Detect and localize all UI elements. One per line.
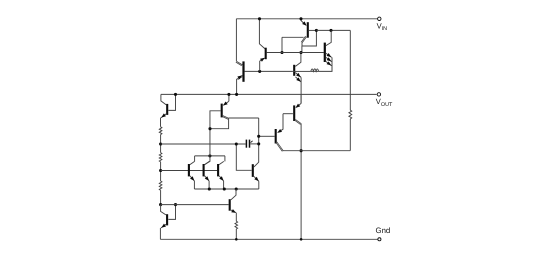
wire feedback rail (283, 150, 351, 152)
transistor Q6 (NPN) (253, 162, 259, 189)
node Q9 base (257, 135, 260, 138)
transistor Q10 (PNP) (283, 94, 301, 124)
node base-collector junction of Q2 (174, 203, 177, 206)
wire compensation vertical (258, 118, 260, 162)
wire bias line (245, 70, 293, 72)
transistor Q8 (diode-connected PNP) (205, 94, 259, 164)
transistor Q2 (diode-connected NPN) (160, 205, 175, 240)
node Q14 base (315, 29, 318, 32)
wire V_IN rail (236, 18, 377, 20)
transistor Q9 (PNP) (259, 114, 284, 152)
svg-text:Gnd: Gnd (376, 226, 391, 235)
node Q12 collector at rail (258, 17, 261, 20)
transistor Q13 (PNP pass) (236, 19, 244, 95)
node Q14 emitter at rail (299, 17, 302, 20)
wire ground rail (160, 238, 377, 240)
wire (160, 190, 162, 204)
resistor R4 (235, 221, 238, 229)
node Q15 collector tie (329, 29, 332, 32)
terminal V_OUT (377, 93, 380, 96)
node bias node A (280, 51, 283, 54)
node T2 emitter (208, 187, 211, 190)
label Gnd (376, 226, 391, 235)
transistor Q1 (diode-connected NPN) (161, 94, 176, 126)
transistor Q14 (diode-connected PNP) (282, 19, 316, 53)
label V_IN (377, 21, 388, 32)
resistor R6 (349, 110, 352, 119)
transistor Q15 (triple-emitter NPN) (325, 30, 332, 71)
node T3 emitter (223, 187, 226, 190)
wire (160, 135, 162, 153)
wire (160, 162, 162, 181)
transistor Q7 (NPN) (230, 189, 237, 221)
wire base bus (316, 29, 350, 31)
wire cap left (161, 143, 246, 145)
node bias junction (258, 70, 261, 73)
resistor R5 (310, 69, 318, 72)
wire collector tie bar (195, 156, 225, 162)
wire emitter bus (194, 188, 258, 190)
wire V_OUT rail (161, 93, 377, 95)
resistor R2 (159, 153, 162, 162)
transistor Q12 (PNP) (259, 19, 282, 72)
node compensation tap (159, 142, 162, 145)
wire base line y53 (267, 52, 324, 54)
terminal V_IN (378, 17, 381, 20)
node cap branch (235, 142, 238, 145)
wire (319, 66, 332, 71)
transistor Q11 (double-emitter NPN) (293, 53, 301, 104)
wire (235, 229, 237, 239)
node bottom tap (159, 203, 162, 206)
capacitor C1 (246, 140, 258, 148)
wire (296, 70, 311, 72)
node Q8 base-collector (208, 127, 211, 130)
node collector tie (208, 154, 211, 157)
wire main vertical (300, 124, 302, 240)
resistor R3 (159, 181, 162, 190)
node Q7 emitter ground (235, 238, 238, 241)
node Q8 emitter at V_OUT rail (227, 93, 230, 96)
node Q7 collector junction (235, 187, 238, 190)
node (300, 149, 303, 152)
terminal Gnd (378, 238, 381, 241)
node Q13 emitter at V_OUT rail (235, 93, 238, 96)
label V_OUT (376, 97, 393, 108)
node base-collector junction of Q1 (174, 93, 177, 96)
wire (349, 119, 351, 151)
node cap right (257, 142, 260, 145)
wire V_OUT sense (349, 30, 351, 110)
transistor Q5 (mirror NPN) (218, 161, 224, 189)
wire bottom mirror base (161, 204, 229, 206)
node mirror base tap (159, 169, 162, 172)
node bias node B (299, 51, 302, 54)
transistor Q4 (mirror NPN) (204, 161, 210, 189)
transistor Q3 (mirror NPN) (189, 161, 195, 189)
resistor R1 (159, 127, 162, 135)
wire Q6 base (236, 144, 251, 170)
wire mirror bases (161, 170, 218, 172)
node (300, 238, 303, 241)
